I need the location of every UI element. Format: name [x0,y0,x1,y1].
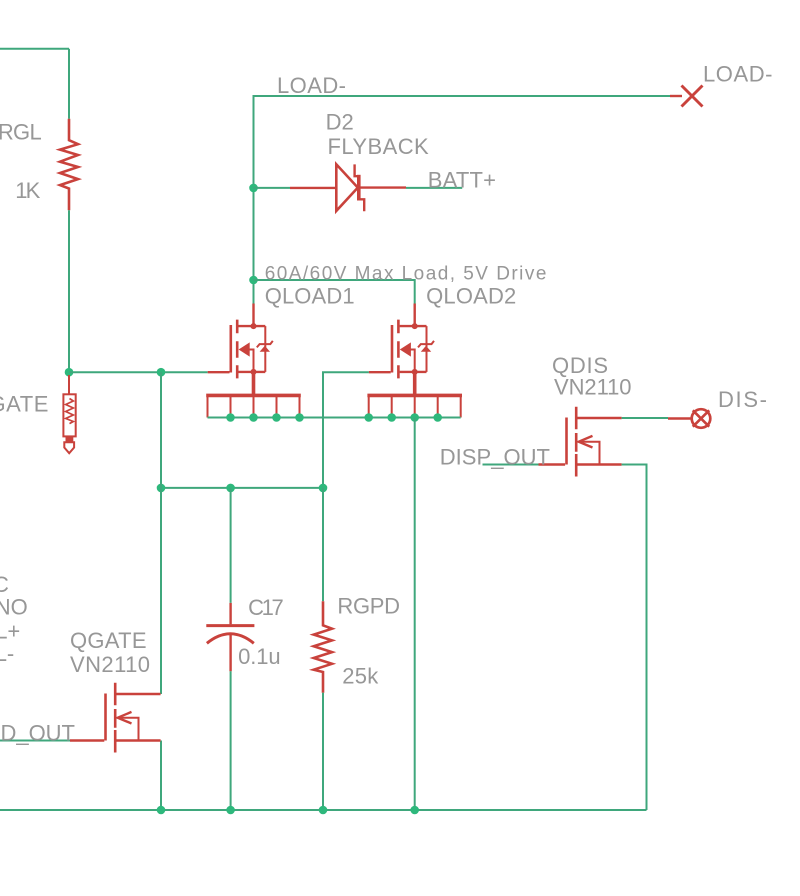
pin QGATE gate stub [70,739,104,741]
diode D2 schottky cathode hooks [355,164,365,211]
svg-text:QLOAD1: QLOAD1 [265,284,355,309]
svg-text:GATE: GATE [0,391,48,416]
wire bottom rail [0,809,647,811]
pin D2 anode stub [290,187,336,189]
pin C17 top stub [229,603,231,624]
svg-text:LOAD-: LOAD- [277,73,346,98]
transistor QLOAD1 [206,320,301,418]
wire QDIS source drop [622,465,647,811]
wire left vertical lower [68,210,70,372]
transistor QGATE [106,683,161,753]
wire gate row [69,371,208,373]
pin QLOAD2 drain stub [414,304,416,327]
node (161,372) [157,368,166,377]
pin QLOAD2 gate stub [369,371,391,373]
wire left vertical upper [68,49,70,119]
node bottom (414.7,810) [410,806,419,815]
wire C17 bottom [230,671,232,810]
svg-text:C: C [0,572,9,597]
svg-text:LOAD-: LOAD- [703,62,773,87]
capacitor C17 bottom plate arc [207,634,254,644]
node bottom (230.6,810) [226,806,235,815]
pin QLOAD1 gate stub [208,371,230,373]
wire RGPD top [322,488,324,601]
wire source bus row [208,417,461,419]
svg-text:60A/60V Max Load, 5V Drive: 60A/60V Max Load, 5V Drive [265,263,547,284]
wire RGPD bottom [322,693,324,810]
resistor RGL [60,119,78,211]
wire QGATE source drop [160,741,162,811]
svg-text:BATT+: BATT+ [428,168,496,193]
svg-text:VN2110: VN2110 [554,374,632,399]
svg-text:DISP_OUT: DISP_OUT [440,444,550,469]
node note-wire junction [249,276,258,285]
svg-text:L+: L+ [0,619,20,644]
node bus dots row [226,413,442,422]
svg-text:RGPD: RGPD [337,594,400,619]
transistor QLOAD2 [367,320,462,418]
pin C17 bottom stub [229,633,231,671]
svg-text:QLOAD2: QLOAD2 [426,284,516,309]
node bottom (323,810) [319,806,328,815]
node bottom (161,810) [157,806,166,815]
svg-text:QGATE: QGATE [70,628,147,653]
svg-text:D2: D2 [326,110,354,135]
node D2 anode junction [249,184,258,193]
svg-text:25k: 25k [342,664,379,689]
wire LOAD- top [254,96,671,304]
capacitor C17 top plate [206,624,254,627]
svg-text:FLYBACK: FLYBACK [328,134,430,159]
svg-text:VN2110: VN2110 [70,652,150,677]
svg-text:C17: C17 [248,595,284,620]
testpoint GATE collar [66,437,74,442]
wire bus drop to bottom [414,418,416,811]
testpoint GATE body [63,394,75,436]
svg-text:D_OUT: D_OUT [1,721,76,746]
resistor RGPD [314,601,332,693]
pin LOAD- port stub [670,95,682,97]
wire QDIS drain to port [622,417,668,419]
pin D2 cathode stub [359,186,406,188]
diode D2 triangle [336,164,358,211]
wire QDIS gate [483,464,539,466]
node (323,488) [319,484,328,493]
pin QDIS gate stub [539,463,566,465]
port LOAD- X [682,86,703,107]
wire top-left horizontal [0,48,69,50]
transistor QDIS [567,407,622,477]
wire D2 anode [254,187,291,189]
testpoint GATE wire stub [68,375,70,394]
svg-text:NO: NO [0,595,28,620]
diode D2 cathode bar [357,175,361,201]
wire C17 top [230,488,232,603]
wire BATT+ [406,187,462,189]
testpoint GATE inner zigzag [66,399,74,424]
pin QLOAD1 drain stub [252,304,254,327]
wire QLOAD2 gate [323,372,369,488]
wire left vertical to QGATE drain [160,372,162,694]
svg-text:1K: 1K [15,178,40,203]
svg-text:DIS-: DIS- [718,387,767,412]
svg-text:RGL: RGL [0,120,42,145]
wire note row to QLOAD2 drain [254,280,415,304]
wire mid row [161,487,323,489]
pin DIS- port stub [668,417,691,419]
node GATE junction [65,368,74,377]
port DIS- circle-X [692,409,711,428]
svg-text:0.1u: 0.1u [238,644,281,669]
testpoint GATE tip [64,442,74,453]
node (161,488) [157,484,166,493]
wire QGATE gate [0,740,70,742]
node (230.6,488) [226,484,235,493]
svg-text:L-: L- [0,641,14,666]
